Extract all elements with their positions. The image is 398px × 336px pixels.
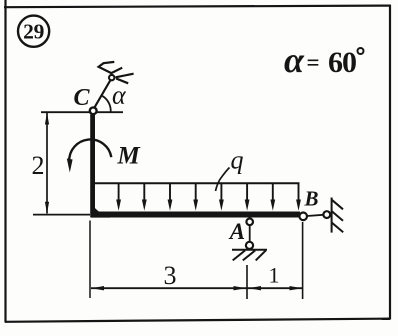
problem number 29 badge — [18, 16, 49, 47]
support B wall line — [331, 198, 333, 233]
bottom dimension line — [91, 287, 302, 289]
horizontal beam — [91, 212, 301, 218]
degree mark — [358, 48, 364, 54]
moment M arc — [69, 139, 111, 161]
support A link rod — [249, 225, 251, 242]
support A ground hatching — [233, 250, 266, 260]
pin C — [90, 107, 97, 114]
dimension 1 right arrow — [290, 286, 303, 290]
support B anchor pin — [323, 211, 330, 218]
svg-text:C: C — [74, 85, 91, 111]
dimension 2 bottom extension line — [33, 214, 90, 216]
extension line right (below B) — [302, 222, 304, 299]
support C link rod — [93, 81, 110, 110]
angle alpha arc — [102, 96, 111, 113]
dimension 1 left arrow — [249, 286, 262, 290]
svg-text:1: 1 — [269, 263, 280, 288]
svg-text:B: B — [304, 186, 319, 210]
horizontal reference line at C — [41, 111, 123, 113]
given data: alpha = 60 deg — [284, 40, 356, 80]
corner gusset — [91, 202, 111, 218]
dimension 2 top arrow — [45, 113, 49, 125]
support C inclined link anchor hatching — [99, 62, 134, 83]
support B wall hatching — [332, 200, 343, 233]
dimension 2 line — [46, 113, 48, 214]
svg-text:3: 3 — [164, 261, 177, 290]
extension line middle (below A) — [246, 265, 248, 299]
dimension 2 bottom arrow — [45, 202, 49, 214]
svg-text:M: M — [117, 143, 141, 170]
label q leader line — [216, 168, 230, 192]
support B link rod — [307, 215, 323, 216]
dimension 3 right arrow — [234, 286, 246, 290]
moment M arrowhead — [67, 159, 73, 173]
support A pin on beam — [246, 219, 253, 226]
support A ground line — [232, 249, 267, 251]
svg-text:=: = — [307, 50, 320, 75]
svg-text:2: 2 — [32, 151, 45, 180]
distributed load arrows — [93, 183, 299, 205]
svg-text:α: α — [112, 81, 127, 110]
svg-text:60: 60 — [328, 46, 356, 79]
dimension 3 left arrow — [92, 286, 105, 290]
support C anchor pin — [109, 75, 114, 80]
support A anchor pin — [246, 242, 253, 249]
vertical beam column — [90, 115, 95, 218]
svg-text:q: q — [231, 146, 244, 175]
extension line left (below corner) — [89, 221, 91, 299]
support B pin at beam end — [299, 213, 307, 221]
distributed load q top line — [93, 182, 300, 184]
svg-text:29: 29 — [23, 19, 44, 43]
svg-text:α: α — [284, 40, 305, 80]
svg-text:A: A — [228, 219, 245, 244]
